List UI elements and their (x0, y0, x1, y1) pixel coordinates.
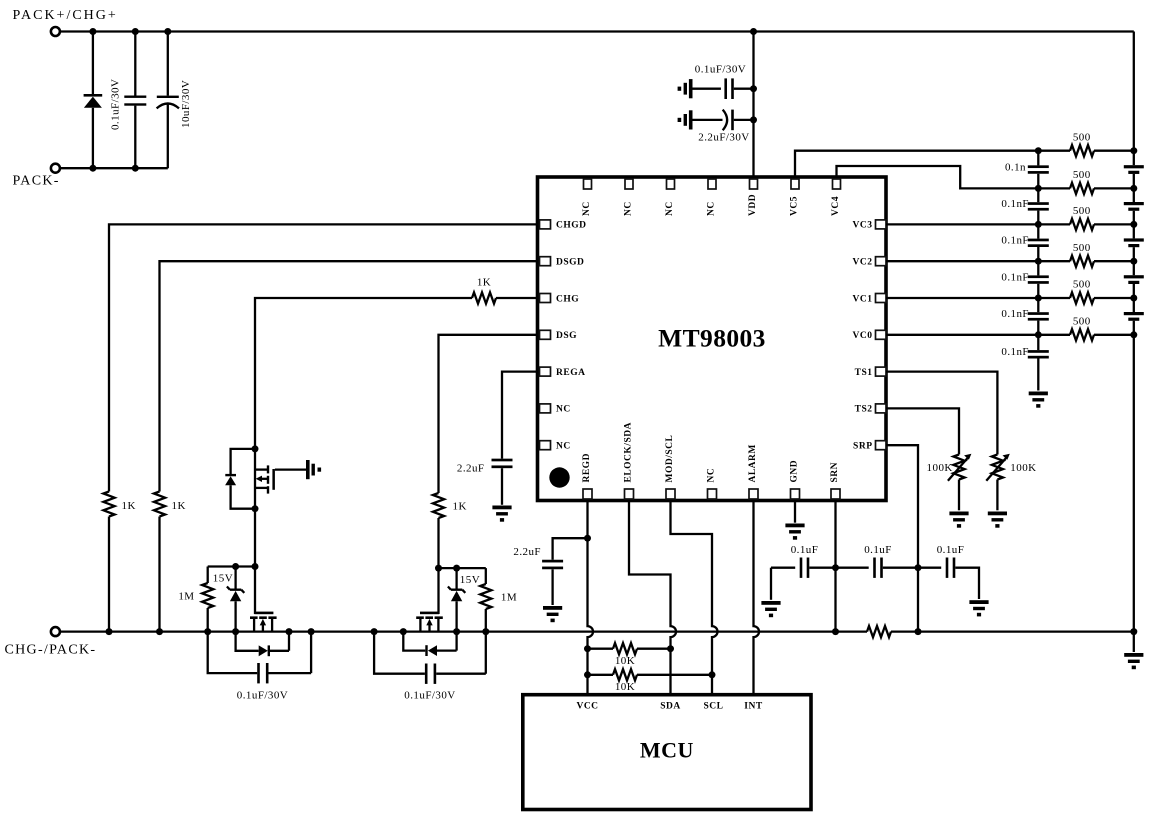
svg-text:PACK-: PACK- (13, 173, 60, 188)
wire Q1 gate to ground (275, 468, 306, 470)
thermistor RT2 100K (TS2) (948, 454, 972, 511)
wire CHG pin segment (496, 297, 537, 299)
wire CHG net to Q1 drain (255, 298, 472, 449)
U1 top pin VC4 (831, 179, 841, 216)
capacitor C1 0.1uF/30V (input) (124, 32, 146, 169)
battery cell BT1 (1124, 165, 1144, 174)
wire Q2 gate riser (254, 567, 256, 615)
terminal CHG-/PACK- (51, 627, 60, 636)
U1 top pin NC (624, 179, 634, 216)
svg-text:TS1: TS1 (855, 368, 873, 378)
svg-text:2.2uF: 2.2uF (457, 462, 485, 474)
ground at RT2 (949, 512, 968, 528)
svg-text:VC3: VC3 (853, 221, 873, 231)
wire PACK+ top rail (60, 30, 1134, 32)
battery cell BT5 (1124, 312, 1144, 321)
MCU body (523, 695, 811, 810)
svg-text:0.1uF/30V: 0.1uF/30V (237, 689, 288, 701)
svg-text:NC: NC (707, 468, 717, 483)
battery cell BT2 (1124, 202, 1144, 211)
svg-text:10K: 10K (615, 681, 635, 693)
U1 bottom pin SRN (830, 462, 840, 499)
wire REGD branch to C14 (553, 538, 588, 560)
svg-text:15V: 15V (213, 573, 233, 585)
svg-text:DSGD: DSGD (556, 258, 584, 268)
junction dots on PACK- rail (89, 165, 138, 172)
svg-text:NC: NC (556, 442, 571, 452)
junction dots node 1 (232, 563, 258, 570)
svg-text:15V: 15V (460, 574, 480, 586)
U1 top pin VC5 (790, 179, 800, 216)
wire battery stack line (1133, 32, 1135, 632)
svg-text:0.1uF: 0.1uF (864, 544, 892, 556)
resistor R13 10K (SDA pullup) (588, 643, 671, 654)
ground at chain bottom (1029, 392, 1048, 408)
U1 right pin TS2 (855, 404, 886, 415)
U1 bottom pin GND (790, 460, 800, 499)
svg-text:500: 500 (1073, 169, 1091, 181)
battery cell BT4 (1124, 275, 1144, 284)
svg-text:0.1nF: 0.1nF (1001, 346, 1029, 358)
terminal PACK- (51, 164, 60, 173)
resistor R11 500 (cell balance) (1038, 292, 1134, 303)
U1 left pin CHGD (540, 220, 587, 231)
svg-text:100K: 100K (927, 462, 953, 474)
capacitor C15 0.1uF (771, 558, 836, 578)
svg-text:500: 500 (1073, 205, 1091, 217)
wire VC0 net (886, 334, 1038, 336)
wire gate-drive node 2 (439, 567, 486, 569)
zener diode D2 15V (227, 567, 244, 632)
svg-text:0.1nF: 0.1nF (1001, 235, 1029, 247)
transistor Q2 (charge FET, horizontal) (250, 612, 277, 632)
Q2 body diode loop (236, 632, 289, 657)
zener diode D3 15V (448, 568, 465, 632)
svg-text:0.1uF: 0.1uF (791, 544, 819, 556)
U1 top pin NC (582, 179, 592, 216)
svg-text:PACK+/CHG+: PACK+/CHG+ (13, 8, 118, 23)
ground at U1 GND pin (785, 524, 804, 540)
wire VDD riser from U1 to PACK+ rail (752, 32, 754, 178)
wire TS2 net (886, 408, 959, 454)
svg-text:1K: 1K (122, 500, 136, 512)
wire VC4 net (837, 166, 1039, 188)
capacitor C4 2.2uF/30V polarized (VDD decoupling) (693, 110, 754, 131)
wire DSGD net (160, 261, 538, 491)
resistor R1 1K (CHGD) (103, 492, 114, 517)
resistor R10 500 (cell balance) (1038, 256, 1134, 267)
diode D1 (input protection) (84, 32, 103, 169)
ground at C17 (969, 600, 988, 616)
ground for C4 (678, 110, 693, 129)
terminal PACK+ (51, 27, 60, 36)
svg-text:1K: 1K (477, 277, 491, 289)
ground at Q1 gate (306, 460, 321, 479)
U1 right pin VC1 (853, 294, 886, 305)
svg-text:SDA: SDA (660, 702, 681, 712)
wire DSGD net lower segment (158, 517, 160, 632)
U1 right pin SRP (853, 441, 886, 452)
junction dot SRN at rail (832, 628, 839, 635)
svg-text:0.1uF: 0.1uF (937, 544, 965, 556)
ground for C3 (678, 79, 693, 98)
junction dots on filter-cap chain (1035, 147, 1042, 338)
svg-text:500: 500 (1073, 131, 1091, 143)
U1 top pin VDD (748, 179, 758, 216)
svg-text:MT98003: MT98003 (658, 324, 766, 353)
IC U1 MT98003 body (538, 177, 887, 501)
battery cell BT3 (1124, 238, 1144, 247)
svg-text:2.2uF: 2.2uF (513, 546, 541, 558)
wire Q1 source down to charge-pump node (254, 509, 256, 567)
resistor R6 1M (480, 568, 491, 632)
capacitor C2 10uF/30V polarized (input) (157, 32, 179, 169)
U1 right pin VC0 (853, 330, 886, 341)
U1 left pin REGA (540, 367, 586, 378)
svg-text:1M: 1M (178, 591, 194, 603)
U1 top pin NC (707, 179, 717, 216)
resistor R8 500 (cell balance) (1038, 183, 1134, 194)
wire stack bottom to ground (1133, 632, 1135, 652)
svg-text:VDD: VDD (748, 194, 758, 216)
wire ELOCK/SDA net (629, 502, 676, 695)
resistor R15 sense (rail) (867, 626, 891, 637)
capacitor C3 0.1uF/30V (VDD decoupling) (693, 78, 754, 99)
wire VC3 net (886, 223, 1038, 225)
svg-text:0.1uF/30V: 0.1uF/30V (110, 79, 122, 130)
capacitor C9 0.1nF (cell filter) (1028, 188, 1049, 224)
wire DSG net lower segment (437, 518, 439, 568)
svg-text:NC: NC (665, 201, 675, 216)
wire Q3 gate riser (437, 568, 439, 614)
wire CHGD net (109, 224, 537, 491)
svg-text:0.1nF: 0.1nF (1001, 198, 1029, 210)
capacitor C12 0.1nF (cell filter) (1028, 298, 1049, 335)
wire CHGD net lower segment (108, 517, 110, 632)
svg-text:0.1nF: 0.1nF (1001, 271, 1029, 283)
svg-text:1K: 1K (172, 500, 186, 512)
svg-text:MOD/SCL: MOD/SCL (665, 435, 675, 483)
svg-text:NC: NC (707, 201, 717, 216)
wire ALARM/INT net (754, 502, 760, 695)
resistor R5 1K (DSG gate) (433, 493, 444, 518)
svg-text:1M: 1M (501, 591, 517, 603)
svg-text:ELOCK/SDA: ELOCK/SDA (624, 422, 634, 482)
ground at C7 (492, 506, 511, 522)
junction dots on battery stack (1130, 147, 1137, 338)
svg-text:500: 500 (1073, 242, 1091, 254)
resistor R12 500 (cell balance) (1038, 329, 1134, 340)
svg-text:GND: GND (790, 460, 800, 483)
U1 left pin DSGD (540, 257, 585, 268)
wire PACK- rail (60, 167, 168, 169)
svg-text:VC0: VC0 (853, 331, 873, 341)
U1 left pin CHG (540, 294, 580, 305)
Q3 body diode loop (403, 632, 456, 656)
svg-text:NC: NC (582, 201, 592, 216)
svg-text:VC4: VC4 (831, 196, 841, 216)
svg-text:100K: 100K (1010, 462, 1036, 474)
junction dot SDA at pullup (667, 645, 674, 652)
capacitor C5 0.1uF/30V loop (208, 632, 311, 684)
U1 right pin VC3 (853, 220, 886, 231)
svg-text:INT: INT (744, 702, 763, 712)
U1 bottom pin REGD (582, 453, 592, 499)
svg-text:VC2: VC2 (853, 258, 873, 268)
svg-text:500: 500 (1073, 279, 1091, 291)
svg-text:1K: 1K (453, 501, 467, 513)
transistor Q1 (vertical MOSFET) (255, 449, 275, 509)
U1 left pin NC (540, 404, 571, 415)
svg-text:REGA: REGA (556, 368, 585, 378)
transistor Q3 (discharge FET, horizontal) (416, 612, 443, 632)
svg-text:0.1n: 0.1n (1005, 161, 1026, 173)
capacitor C16 0.1uF (836, 558, 919, 578)
ground at rail right end (1124, 653, 1143, 669)
svg-text:500: 500 (1073, 316, 1091, 328)
U1 pin-1 marker dot (549, 467, 569, 487)
U1 left pin DSG (540, 330, 578, 341)
U1 bottom pin NC (707, 468, 717, 499)
svg-text:MCU: MCU (640, 738, 694, 763)
svg-text:SRP: SRP (853, 442, 872, 452)
wire SRP net (886, 445, 918, 631)
wire TS1 net (886, 372, 997, 455)
U1 top pin NC (665, 179, 675, 216)
U1 bottom pin MOD/SCL (665, 435, 675, 499)
resistor R14 10K (SCL pullup) (588, 669, 713, 680)
resistor R9 500 (cell balance) (1038, 219, 1134, 230)
junction dot SRP at rail (915, 628, 922, 635)
svg-text:SCL: SCL (704, 702, 724, 712)
ground at RT1 (988, 512, 1007, 528)
svg-text:ALARM: ALARM (748, 444, 758, 482)
capacitor C10 0.1nF (cell filter) (1028, 224, 1049, 261)
svg-text:DSG: DSG (556, 331, 577, 341)
svg-text:0.1uF/30V: 0.1uF/30V (404, 690, 455, 702)
Q1 junction dots (252, 445, 259, 512)
wire VC5 net (795, 151, 1038, 177)
svg-text:CHG-/PACK-: CHG-/PACK- (5, 642, 97, 657)
wire DSG pin segment (439, 335, 538, 493)
wire SRN net (834, 502, 836, 632)
thermistor RT1 100K (TS1) (986, 454, 1010, 511)
svg-text:0.1nF: 0.1nF (1001, 308, 1029, 320)
U1 right pin VC2 (853, 257, 886, 268)
resistor R4 1M (202, 567, 213, 632)
junction dot SRN at cap row (832, 564, 839, 571)
Q1 body diode (225, 449, 255, 509)
wire GND pin to ground (794, 502, 796, 523)
svg-text:10K: 10K (615, 655, 635, 667)
U1 bottom pin ELOCK/SDA (624, 422, 634, 499)
capacitor C11 0.1nF (cell filter) (1028, 261, 1049, 298)
capacitor C6 0.1uF/30V loop (374, 632, 486, 684)
wire REGA net (502, 372, 537, 459)
junction dots node 2 (435, 565, 460, 572)
capacitor C7 2.2uF (REGA) (492, 459, 513, 505)
capacitor C17 0.1uF (918, 558, 979, 600)
svg-text:0.1uF/30V: 0.1uF/30V (695, 64, 746, 76)
svg-text:SRN: SRN (830, 462, 840, 483)
junction dot SRP at cap row (915, 564, 922, 571)
capacitor C14 2.2uF (REGD) (542, 560, 563, 605)
U1 right pin TS1 (855, 367, 886, 378)
resistor R3 1K (CHG gate) (472, 292, 496, 303)
junction dots on CHG-/PACK- rail (106, 628, 1138, 635)
U1 left pin NC (540, 441, 571, 452)
resistor R2 1K (DSGD) (154, 492, 165, 517)
svg-text:CHG: CHG (556, 294, 579, 304)
junction dots on REGD net (584, 535, 591, 679)
ground at C14 (543, 606, 562, 622)
svg-text:NC: NC (624, 201, 634, 216)
wire CHG-/PACK- rail right segment (891, 630, 1134, 632)
junction dots on PACK+ rail (89, 28, 757, 35)
junctions on VDD riser (750, 85, 757, 123)
wire gate-drive node 1 (208, 565, 255, 567)
svg-text:VC5: VC5 (790, 196, 800, 216)
svg-text:REGD: REGD (582, 453, 592, 482)
resistor R7 500 (cell balance) (1038, 145, 1134, 156)
svg-text:NC: NC (556, 405, 571, 415)
wire MOD/SCL net (671, 502, 718, 695)
svg-text:CHGD: CHGD (556, 221, 587, 231)
svg-text:10uF/30V: 10uF/30V (180, 80, 192, 128)
svg-text:VCC: VCC (576, 702, 598, 712)
wire CHG-/PACK- rail (60, 630, 867, 632)
junction dot SCL at pullup (709, 671, 716, 678)
wire VC1 net (886, 297, 1038, 299)
ground at C15 (761, 568, 780, 617)
svg-text:TS2: TS2 (855, 405, 873, 415)
U1 bottom pin ALARM (748, 444, 758, 499)
svg-text:2.2uF/30V: 2.2uF/30V (698, 131, 749, 143)
capacitor C13 0.1nF (bottom of chain) (1028, 335, 1049, 391)
wire VC2 net (886, 260, 1038, 262)
wire REGD/VCC net (588, 502, 594, 695)
capacitor C8 0.1n (cell filter) (1028, 151, 1049, 189)
svg-text:VC1: VC1 (853, 294, 873, 304)
